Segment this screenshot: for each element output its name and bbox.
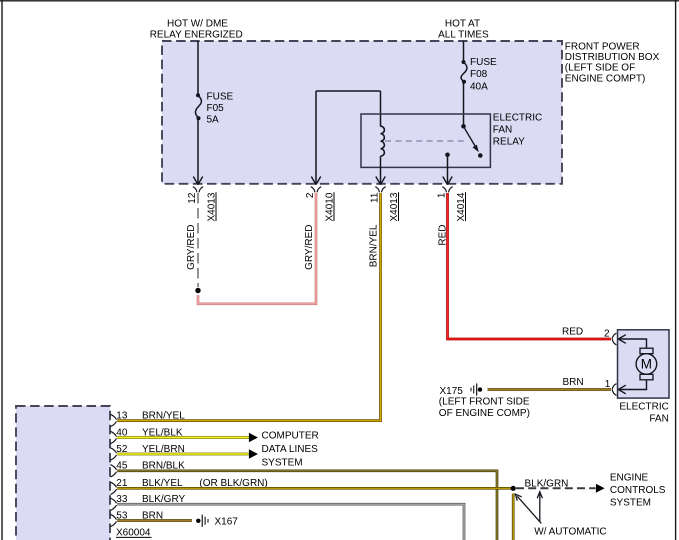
svg-text:ELECTRIC: ELECTRIC <box>493 113 542 124</box>
wire label BLK/YEL (OR BLK/GRN) (pin 21) <box>142 478 268 489</box>
svg-text:DATA LINES: DATA LINES <box>262 444 319 455</box>
svg-text:CONTROLS: CONTROLS <box>610 485 666 496</box>
svg-text:GRY/RED: GRY/RED <box>186 225 197 270</box>
fan internal wire from pin 2 to motor <box>618 339 646 348</box>
svg-text:X167: X167 <box>215 516 239 527</box>
pin 12 arrow <box>193 177 202 185</box>
wire BLK/YEL from pin 21 to junction <box>117 487 511 490</box>
svg-text:GRY/RED: GRY/RED <box>304 225 315 270</box>
connector name X4010 (pin 2) <box>324 192 335 221</box>
svg-text:ELECTRIC: ELECTRIC <box>619 401 668 412</box>
svg-text:ALL TIMES: ALL TIMES <box>438 29 489 40</box>
wire RED from pin 1 down and right to fan pin 2 <box>448 193 612 339</box>
svg-text:BRN/YEL: BRN/YEL <box>142 410 185 421</box>
pin 11 connector bracket <box>375 187 385 193</box>
relay actuator dashed link <box>385 140 468 142</box>
svg-text:ENGINE COMPT): ENGINE COMPT) <box>565 73 646 84</box>
wire BLK/GRY from pin 33 right and down off page <box>117 504 464 540</box>
svg-text:X175: X175 <box>440 386 464 397</box>
fuse F08 <box>461 57 497 92</box>
junction node on BLK/YEL <box>511 486 516 491</box>
relay box: electric fan relay <box>361 114 490 167</box>
relay switch output contact <box>445 153 450 158</box>
wire BLK/GRN dashed to engine controls system <box>516 487 596 489</box>
svg-text:RED: RED <box>562 327 583 338</box>
svg-text:FRONT POWER: FRONT POWER <box>565 42 640 53</box>
connector X167 symbol <box>196 515 238 528</box>
svg-text:13: 13 <box>116 410 128 421</box>
wire: relay coil feed from pin 2 riser, horizontal at y=91 <box>316 90 381 92</box>
left box pin 52 bracket <box>110 448 116 460</box>
wire BRN from X175 to fan pin 1 <box>488 388 612 391</box>
connector name X4014 (pin 1) <box>456 192 467 221</box>
fan pin 1 arrow (male pin) <box>618 385 626 394</box>
svg-text:SYSTEM: SYSTEM <box>262 458 303 469</box>
svg-text:RELAY ENERGIZED: RELAY ENERGIZED <box>150 29 243 40</box>
wire BRN/BLK from pin 45 right and down off page <box>117 471 497 540</box>
wire BRN from pin 53 to X167 <box>117 519 192 522</box>
pin 1 connector bracket <box>442 187 452 193</box>
relay switch common contact <box>461 124 466 129</box>
connector name X60004 <box>116 528 152 539</box>
svg-text:BLK/GRN: BLK/GRN <box>525 478 569 489</box>
svg-text:BRN/YEL: BRN/YEL <box>369 224 380 267</box>
left box X60004 (body control module, cut off) <box>16 406 110 540</box>
electric fan box <box>618 330 670 398</box>
wire: from HOT AT ALL TIMES down to fuse F08 <box>463 41 465 61</box>
pin 2 arrow <box>311 177 320 185</box>
svg-text:HOT AT: HOT AT <box>445 18 480 29</box>
svg-text:FUSE: FUSE <box>207 91 234 102</box>
svg-text:(LEFT FRONT SIDE: (LEFT FRONT SIDE <box>439 397 530 408</box>
wire: coil to pin 11 arrow <box>380 156 382 183</box>
arrow to computer data lines (pin 52) <box>249 449 258 459</box>
svg-text:5A: 5A <box>207 114 220 125</box>
wire GRY/RED dashed from pin 12 down to splice <box>197 193 199 287</box>
svg-text:SYSTEM: SYSTEM <box>610 498 651 509</box>
wire BLK/YEL continues down off page <box>512 494 515 540</box>
fan pin 1 bracket <box>612 384 616 396</box>
svg-text:12: 12 <box>187 192 198 204</box>
svg-text:FAN: FAN <box>493 125 512 136</box>
wire: fuse F08 down to relay switch common <box>463 82 465 124</box>
wire: coil feed down into relay <box>380 91 382 127</box>
svg-text:FUSE: FUSE <box>470 57 497 68</box>
svg-text:COMPUTER: COMPUTER <box>262 431 319 442</box>
svg-text:F05: F05 <box>207 103 225 114</box>
node: HOT W/ DME RELAY ENERGIZED <box>150 18 243 40</box>
motor M1 bottom terminal <box>640 374 653 380</box>
label: ELECTRIC FAN <box>619 401 668 424</box>
svg-text:DISTRIBUTION BOX: DISTRIBUTION BOX <box>565 52 660 63</box>
svg-text:HOT W/ DME: HOT W/ DME <box>167 18 228 29</box>
fan internal wire from motor to pin 1 <box>618 380 646 390</box>
wire BRN/YEL from pin 11 down and left to left box pin 13 <box>117 193 380 421</box>
wire YEL/BRN from pin 52 to computer data lines arrow <box>117 453 249 456</box>
label: ENGINE CONTROLS SYSTEM <box>610 473 666 509</box>
svg-text:11: 11 <box>370 192 381 203</box>
page frame right border <box>675 0 677 540</box>
left box pin 13 bracket <box>110 414 116 426</box>
svg-text:RELAY: RELAY <box>493 137 525 148</box>
left box pin 40 bracket <box>110 431 116 443</box>
left box pin 45 bracket <box>110 465 116 477</box>
node: HOT AT ALL TIMES <box>438 18 489 40</box>
fan pin 2 bracket <box>612 333 616 345</box>
motor M1 body <box>636 354 657 375</box>
left box pin 33 bracket <box>110 498 116 510</box>
svg-text:(LEFT SIDE OF: (LEFT SIDE OF <box>565 63 635 74</box>
left box pin 21 bracket <box>110 482 116 494</box>
wire: pin 2 riser down to pin 2 arrow <box>315 91 317 183</box>
motor M1 top terminal <box>640 348 653 354</box>
fuse F05 <box>195 91 233 125</box>
wire YEL/BLK from pin 40 to computer data lines arrow <box>117 436 249 439</box>
pin 2 connector bracket <box>311 187 321 193</box>
page frame top border <box>0 0 679 2</box>
fan pin 2 arrow (male pin) <box>618 335 626 344</box>
wire: from HOT W/ DME down to fuse F05 <box>197 41 199 94</box>
label: COMPUTER DATA LINES SYSTEM <box>262 431 319 469</box>
svg-text:F08: F08 <box>470 69 488 80</box>
label: FRONT POWER DISTRIBUTION BOX (LEFT SIDE OF ENGINE COMPT) <box>565 42 660 85</box>
pin 11 arrow <box>376 177 385 185</box>
svg-text:M: M <box>641 357 652 372</box>
note W/ AUTOMATIC with pointers <box>515 492 606 538</box>
pointer arrow up to dashed BLK/GRN wire <box>539 494 541 522</box>
pin 12 connector bracket <box>193 187 203 193</box>
relay switch stationary contact (N.O.) <box>478 153 483 158</box>
splice dot on GRY/RED <box>195 288 200 293</box>
connector name X4013 (pin 12) <box>206 192 217 221</box>
wire GRY/RED solid from splice to pin 2 (pink) <box>198 193 316 304</box>
svg-text:1: 1 <box>437 192 448 198</box>
label: ELECTRIC FAN RELAY <box>493 113 542 148</box>
page frame left border <box>1 0 3 540</box>
arrow to engine controls system <box>596 484 605 493</box>
svg-text:2: 2 <box>604 328 610 339</box>
svg-text:W/ AUTOMATIC: W/ AUTOMATIC <box>534 527 606 538</box>
arrow to computer data lines (pin 40) <box>249 433 258 443</box>
svg-text:40A: 40A <box>470 82 488 93</box>
wire: relay output down to pin 1 arrow <box>447 155 449 183</box>
svg-text:OF ENGINE COMP): OF ENGINE COMP) <box>439 408 530 419</box>
relay switch arm with arrowhead <box>465 128 479 152</box>
note: (LEFT FRONT SIDE OF ENGINE COMP) <box>439 397 530 419</box>
svg-text:1: 1 <box>605 379 611 390</box>
wire: fuse F05 to pin 12 arrow <box>197 118 199 183</box>
svg-text:FAN: FAN <box>649 413 668 424</box>
connector X175 symbol <box>440 383 483 396</box>
pin 1 arrow <box>443 177 452 185</box>
relay coil <box>381 126 385 156</box>
left box pin 53 bracket <box>110 514 116 526</box>
pointer arrow up-left to junction node <box>517 496 541 523</box>
svg-text:ENGINE: ENGINE <box>610 473 649 484</box>
connector name X4013 (pin 11) <box>389 192 400 221</box>
front power distribution box <box>162 41 562 184</box>
svg-text:BRN: BRN <box>563 377 584 388</box>
svg-text:2: 2 <box>305 192 316 198</box>
